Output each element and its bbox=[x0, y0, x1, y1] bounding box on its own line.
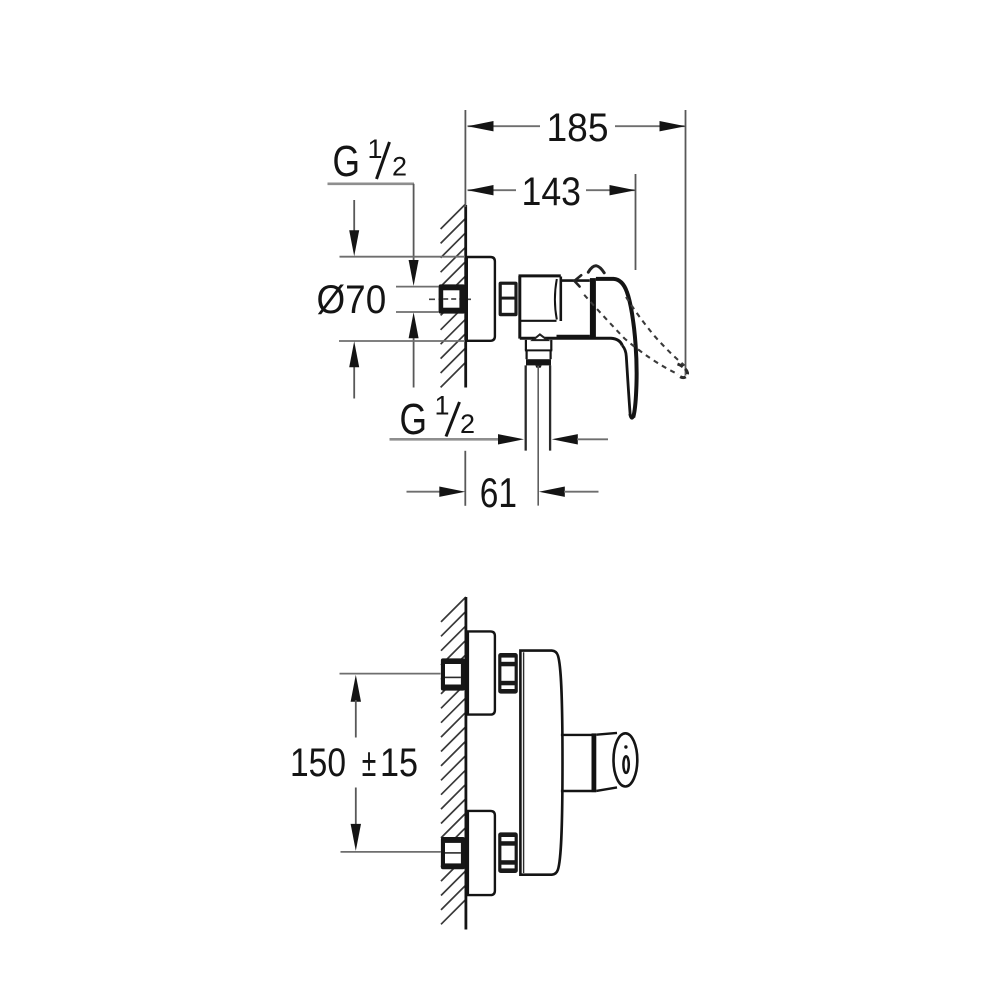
outlet pipe (top view) bbox=[525, 365, 527, 450]
handle swing arc arrowhead bbox=[574, 275, 581, 286]
valve neck (top view) bbox=[561, 279, 590, 282]
extension line left (wall surface, upper) bbox=[464, 110, 466, 207]
knob (bottom view) bbox=[596, 733, 617, 735]
supply nut top (bottom view) bbox=[441, 658, 465, 690]
dimension O70 arrows bbox=[353, 200, 355, 232]
leader from G1/2 label down to pipe bbox=[413, 184, 415, 262]
svg-text:2: 2 bbox=[460, 409, 475, 439]
pipe centerline / ext for 61 bbox=[537, 366, 539, 506]
label G 1/2 (lower, outlet thread) bbox=[400, 391, 476, 445]
svg-text:15: 15 bbox=[380, 741, 418, 785]
G1/2 thread dim lower arrow (points up to pipe bottom line) bbox=[413, 336, 415, 388]
handle swing arc caret dash bbox=[588, 266, 604, 273]
handle cap + lever outer edge (top view) bbox=[596, 279, 637, 417]
supply nut bottom (bottom view) bbox=[441, 837, 465, 869]
pipe edge leader lines (either side of O70 text) bbox=[396, 286, 439, 288]
wall hatch (bottom view) bbox=[441, 597, 466, 924]
hex adapter (top view) bbox=[499, 282, 518, 317]
dimension 143 bbox=[468, 170, 636, 214]
G1/2 lower dim line with arrows to pipe bbox=[390, 434, 609, 444]
svg-text:143: 143 bbox=[522, 170, 582, 214]
cartridge cylinder (top view) bbox=[519, 276, 561, 339]
dimension O70 extension lines (escutcheon diameter) bbox=[340, 256, 466, 258]
handle joint band (bottom view) bbox=[592, 733, 597, 792]
extension line right for 143 bbox=[635, 174, 637, 270]
outlet shank (top view) bbox=[525, 340, 552, 368]
thread centerline (dashed) bbox=[429, 298, 471, 300]
wall hatch (top view) bbox=[441, 204, 466, 387]
wall line (top view) bbox=[464, 205, 467, 388]
handle shaft (bottom view) bbox=[561, 734, 592, 736]
svg-text:G: G bbox=[333, 137, 361, 186]
label G 1/2 (upper, wall supply thread) bbox=[328, 134, 415, 186]
svg-text:1: 1 bbox=[435, 391, 450, 421]
dimension 150 +-15 bbox=[290, 675, 418, 851]
svg-text:±: ± bbox=[362, 741, 377, 785]
handle swing dashed lower edge bbox=[584, 295, 676, 374]
extension line left for 61 (wall, lower) bbox=[464, 451, 466, 506]
svg-text:Ø70: Ø70 bbox=[317, 278, 387, 322]
dimension 61 bbox=[407, 469, 599, 516]
escutcheon / rosette (top view) bbox=[467, 257, 495, 341]
body (bottom view) bbox=[520, 651, 562, 875]
extension line 150 top bbox=[340, 673, 441, 675]
extension line 150 bottom bbox=[341, 851, 441, 853]
hex adapter bottom (bottom view) bbox=[498, 832, 518, 873]
handle swing dashed tip bbox=[678, 364, 688, 378]
svg-text:1: 1 bbox=[368, 134, 383, 164]
handle swing dashed upper edge bbox=[626, 297, 685, 366]
svg-text:61: 61 bbox=[480, 469, 517, 516]
svg-text:150: 150 bbox=[290, 741, 346, 785]
lever tip bbox=[630, 414, 634, 418]
escutcheon bottom (bottom view) bbox=[468, 811, 495, 895]
outlet back peak bbox=[533, 334, 548, 340]
hex adapter top (bottom view) bbox=[498, 653, 518, 694]
escutcheon top (bottom view) bbox=[468, 631, 495, 714]
supply nut behind wall (top view) bbox=[439, 284, 466, 313]
body bottom edge + inner lever edge bbox=[520, 338, 623, 345]
svg-text:185: 185 bbox=[547, 106, 609, 150]
extension line right for 185 bbox=[685, 110, 687, 376]
wall line (bottom view) bbox=[464, 597, 467, 930]
knob face mark bbox=[623, 756, 628, 773]
handle joint band (top view) bbox=[590, 278, 596, 337]
body inner fold line bbox=[523, 652, 525, 873]
dimension 185 bbox=[468, 106, 686, 150]
svg-text:G: G bbox=[400, 395, 428, 444]
svg-text:2: 2 bbox=[392, 152, 407, 182]
